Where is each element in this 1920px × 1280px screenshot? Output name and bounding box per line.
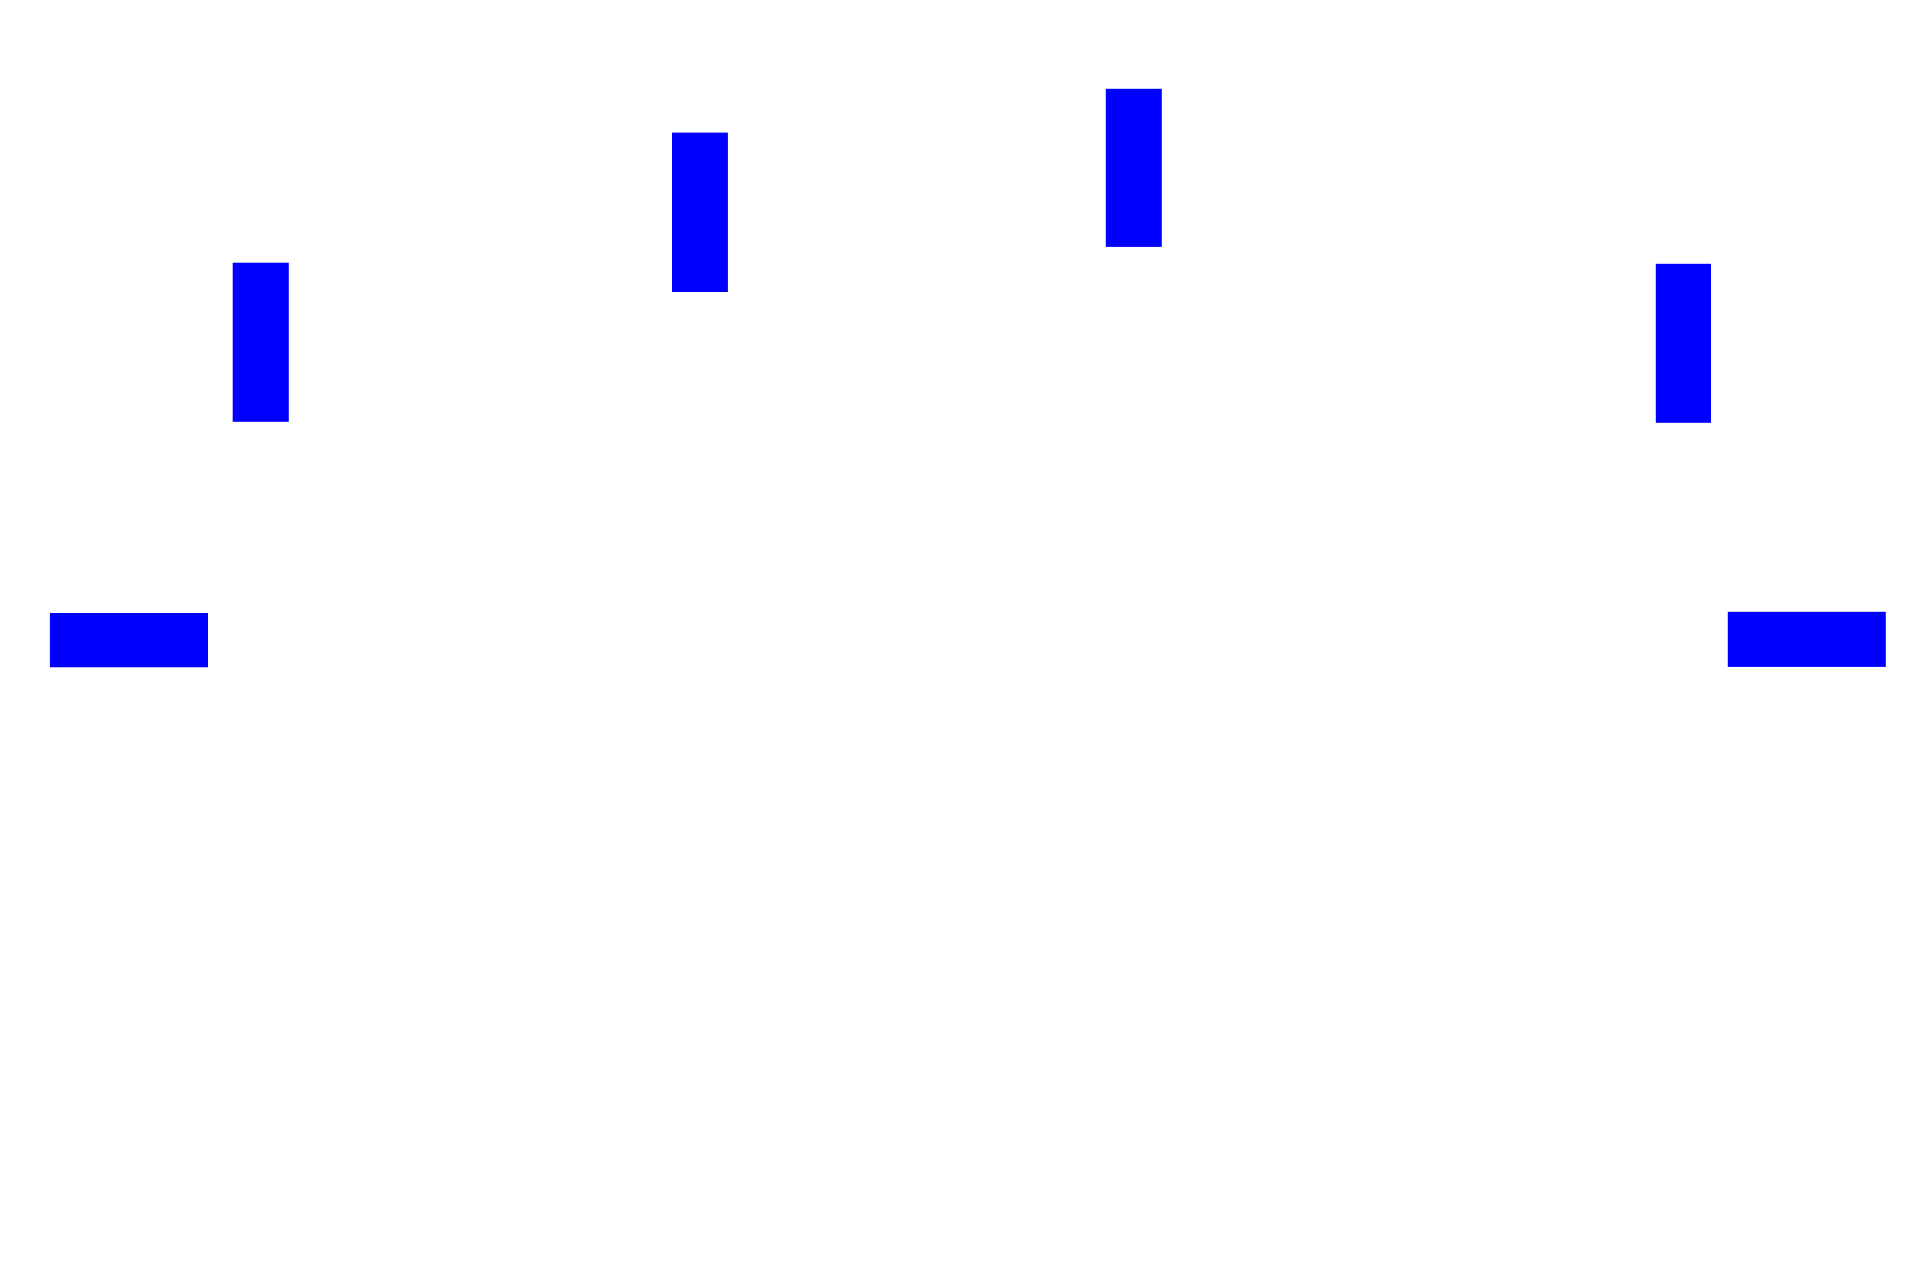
resistor R1 bbox=[233, 263, 289, 422]
resistor R4 bbox=[1656, 264, 1711, 423]
resistor R5 bbox=[50, 613, 208, 667]
resistor R2 bbox=[672, 133, 728, 292]
resistor R3 bbox=[1106, 89, 1162, 247]
resistor R6 bbox=[1728, 612, 1886, 667]
